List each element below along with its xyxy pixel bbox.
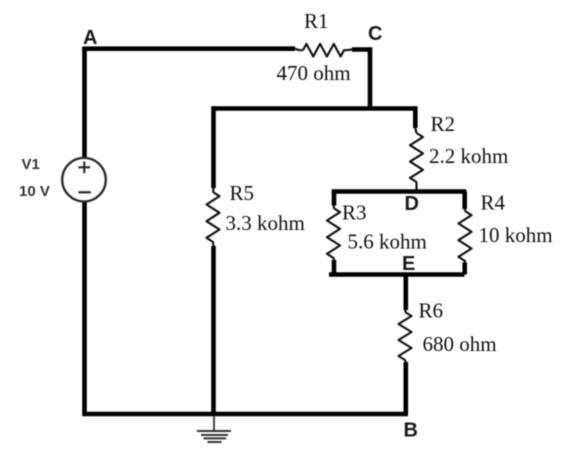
- resistor R3 zigzag 5.6 kohm: [327, 206, 340, 261]
- wire R2 lead bottom to node D rail: [416, 182, 418, 192]
- wire node C vertical down to middle rail: [368, 47, 373, 108]
- svg-text:V1: V1: [22, 156, 40, 173]
- resistor R1 zigzag 470 ohm: [295, 44, 352, 57]
- svg-text:R4: R4: [481, 191, 506, 215]
- wire R2 top stub: [413, 106, 418, 128]
- svg-text:680 ohm: 680 ohm: [423, 332, 497, 356]
- wire R6 top stub from node E: [403, 275, 408, 311]
- voltage source V1 circle: [62, 158, 106, 202]
- svg-text:R2: R2: [431, 112, 456, 136]
- svg-text:B: B: [404, 420, 418, 442]
- wire bottom rail from left corner to node B: [82, 412, 408, 417]
- wire middle rail from R5 top to R2 corner: [214, 106, 418, 111]
- resistor R2 zigzag 2.2 kohm: [410, 128, 423, 182]
- wire left vertical from V1 bottom to bottom rail: [82, 202, 87, 415]
- wire R1 right stub into node C: [352, 47, 370, 52]
- svg-text:C: C: [368, 23, 382, 45]
- wire left vertical from A down to source V1 top: [82, 47, 87, 159]
- svg-text:R5: R5: [230, 181, 255, 205]
- wire R4 bottom stub: [462, 263, 467, 275]
- svg-text:D: D: [405, 193, 419, 215]
- resistor R4 zigzag 10 kohm: [459, 209, 472, 263]
- svg-text:2.2 kohm: 2.2 kohm: [429, 144, 508, 168]
- svg-text:E: E: [402, 253, 415, 275]
- wire R6 bottom to node B: [403, 362, 408, 414]
- svg-text:10 kohm: 10 kohm: [479, 223, 553, 247]
- V1 plus sign: [78, 162, 90, 174]
- svg-text:470 ohm: 470 ohm: [277, 61, 351, 85]
- resistor R5 zigzag 3.3 kohm: [207, 188, 220, 246]
- wire R3 bottom stub: [332, 260, 337, 275]
- wire R5 top stub: [211, 106, 216, 188]
- svg-text:A: A: [83, 27, 97, 49]
- svg-text:3.3 kohm: 3.3 kohm: [226, 211, 305, 235]
- wire top from node A to R1 left: [85, 47, 296, 49]
- wire R3 top stub: [332, 192, 337, 206]
- V1 minus sign: [78, 191, 91, 193]
- wire R5 bottom to bottom rail: [211, 246, 216, 414]
- svg-text:R1: R1: [304, 9, 329, 33]
- wire R4 top stub: [462, 192, 467, 210]
- svg-text:10 V: 10 V: [19, 183, 50, 200]
- svg-text:5.6 kohm: 5.6 kohm: [348, 230, 427, 254]
- wire node D rail: [332, 189, 467, 194]
- resistor R6 zigzag 680 ohm: [399, 310, 412, 362]
- svg-text:R3: R3: [342, 201, 367, 225]
- wire node E rail: [329, 272, 465, 277]
- svg-text:R6: R6: [419, 299, 444, 323]
- ground symbol: [213, 416, 215, 431]
